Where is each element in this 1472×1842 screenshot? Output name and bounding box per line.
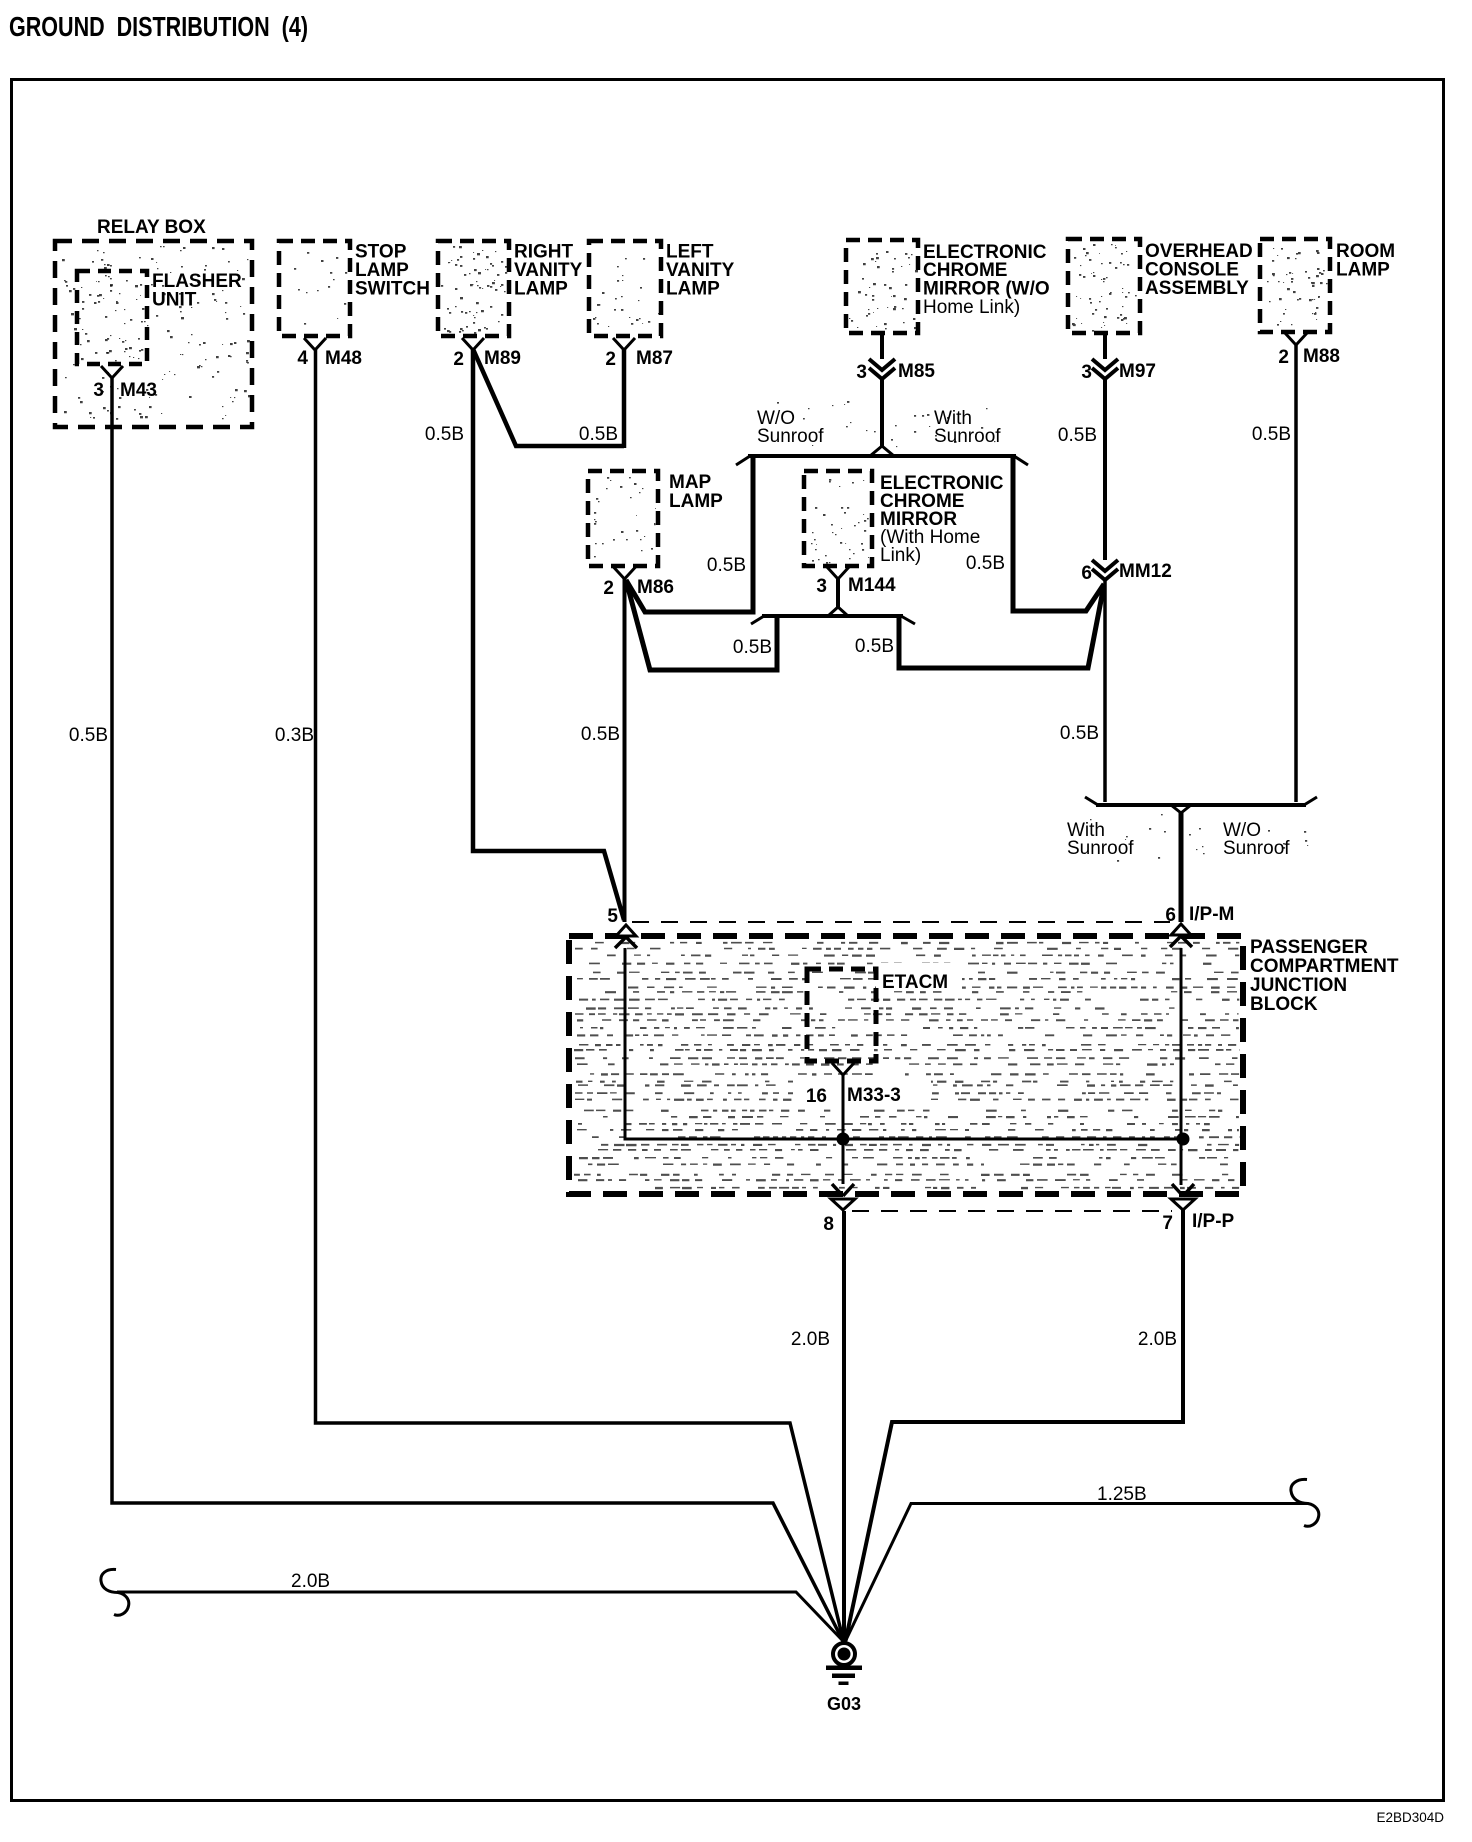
svg-text:M88: M88 [1303,346,1340,367]
svg-text:M43: M43 [120,380,157,401]
wire M43 to G03 (0.5B) [112,377,843,1641]
svg-text:0.3B: 0.3B [275,725,314,746]
map lamp [588,471,723,566]
svg-text:Sunroof: Sunroof [934,426,1001,447]
wire w/o-sunroof branch to M86 (0.5B) [626,456,753,612]
break symbol (2.0B wire) [101,1569,129,1615]
svg-text:0.5B: 0.5B [1060,723,1099,744]
svg-text:JUNCTION: JUNCTION [1250,975,1347,996]
label With Sunroof (merge left) [1067,820,1134,859]
svg-text:G03: G03 [827,1694,861,1714]
wire 2.0B with break to G03 [117,1592,843,1641]
break symbol (1.25B wire) [1291,1479,1319,1526]
passenger compartment junction block [569,936,1399,1194]
label W/O Sunroof (left branch) [757,408,824,447]
wire M144 right branch to MM12 (0.5B) [899,585,1104,668]
svg-text:ETACM: ETACM [882,972,948,993]
svg-text:ASSEMBLY: ASSEMBLY [1145,278,1249,299]
connector M97 pin 3 [1081,333,1156,383]
left vanity lamp [589,241,735,336]
svg-text:M85: M85 [898,361,935,382]
svg-text:0.5B: 0.5B [1058,425,1097,446]
connector M89 pin 2 [453,338,521,370]
svg-text:7: 7 [1162,1213,1173,1234]
internal wire bus to pin 8 [842,1139,845,1184]
internal wire M33-3 to bus [842,1075,845,1139]
wire pin 7 I/P-P to G03 (2.0B) [846,1210,1184,1641]
junction pin 5 [607,906,637,948]
svg-text:0.5B: 0.5B [581,724,620,745]
svg-text:3: 3 [816,576,827,597]
sunroof option split bracket [736,446,1028,465]
svg-text:M97: M97 [1119,361,1156,382]
svg-text:3: 3 [1081,362,1092,383]
connector M86 pin 2 [603,567,674,599]
svg-text:BLOCK: BLOCK [1250,994,1318,1015]
svg-text:COMPARTMENT: COMPARTMENT [1250,956,1399,977]
svg-text:Link): Link) [880,545,921,566]
label With Sunroof (right branch) [934,408,1001,447]
svg-text:Sunroof: Sunroof [1223,838,1290,859]
junction node (bus right) [1177,1133,1190,1146]
room lamp [1260,239,1395,332]
wire with-sunroof branch to MM12 (0.5B) [1013,456,1104,611]
svg-text:0.5B: 0.5B [425,424,464,445]
junction block connector strip (top) [632,921,1170,923]
svg-text:2: 2 [1278,347,1289,368]
wire M85 to sunroof split [880,379,884,447]
svg-text:2.0B: 2.0B [291,1571,330,1592]
svg-text:2: 2 [453,349,464,370]
wire M48 to G03 (0.3B) [316,349,844,1641]
svg-text:5: 5 [607,906,618,927]
junction block connector strip (bottom) [852,1210,1172,1212]
svg-text:LAMP: LAMP [666,279,720,300]
svg-text:E2BD304D: E2BD304D [1376,1810,1444,1825]
svg-text:M89: M89 [484,348,521,369]
ETACM [807,963,962,1061]
svg-text:M87: M87 [636,348,673,369]
svg-text:LAMP: LAMP [514,279,568,300]
connector M43 pin 3 [93,366,157,401]
svg-text:1.25B: 1.25B [1097,1484,1147,1505]
svg-text:MM12: MM12 [1119,561,1172,582]
svg-text:LAMP: LAMP [669,491,723,512]
overhead console assembly [1068,239,1253,333]
wire 1.25B with break to G03 [846,1504,1309,1642]
svg-text:0.5B: 0.5B [1252,424,1291,445]
svg-text:PASSENGER: PASSENGER [1250,937,1368,958]
connector M88 pin 2 [1278,333,1340,368]
svg-text:RELAY BOX: RELAY BOX [97,217,206,238]
M144 split bracket [751,607,915,624]
right vanity lamp [438,241,583,336]
relay box [55,217,252,427]
junction pin 8 [823,1184,855,1235]
electronic chrome mirror (w/o home link) [846,240,1050,333]
connector M85 pin 3 [856,333,935,383]
internal wire pin5 to bus [625,948,1183,1139]
connector M144 pin 3 [816,567,896,597]
wire pin 8 to G03 (2.0B) [842,1211,846,1642]
svg-text:2.0B: 2.0B [1138,1329,1177,1350]
ground G03 [826,1643,862,1714]
junction pin 6 I/P-M [1165,904,1234,947]
wire M88 down to sunroof merge (0.5B) [1294,344,1298,802]
connector MM12 pin 6 [1081,560,1171,584]
svg-text:UNIT: UNIT [152,290,197,311]
sunroof option merge bracket [1085,797,1317,813]
svg-text:M86: M86 [637,577,674,598]
svg-text:3: 3 [93,380,104,401]
wire M89 to M87 link [473,349,624,446]
svg-text:16: 16 [806,1086,827,1107]
wire M89 down to junction pin 5 (0.5B) [473,349,624,920]
svg-text:M33-3: M33-3 [847,1085,901,1106]
svg-text:M48: M48 [325,348,362,369]
flasher unit [77,271,242,364]
connector M87 pin 2 [605,338,673,370]
connector M48 pin 4 [297,338,362,369]
svg-text:4: 4 [297,348,308,369]
junction pin 7 I/P-P [1162,1184,1234,1234]
stop lamp switch [279,241,430,336]
wire merge to junction pin 6 I/P-M [1179,812,1184,922]
wire M87 down (0.5B) [622,349,627,448]
svg-text:M144: M144 [848,575,896,596]
svg-text:2: 2 [603,578,614,599]
svg-text:2.0B: 2.0B [791,1329,830,1350]
svg-text:0.5B: 0.5B [69,725,108,746]
svg-text:MAP: MAP [669,472,712,493]
svg-text:0.5B: 0.5B [733,637,772,658]
svg-text:I/P-P: I/P-P [1192,1211,1235,1232]
svg-text:3: 3 [856,362,867,383]
wire M144 to split [836,578,840,608]
svg-text:2: 2 [605,349,616,370]
svg-text:LAMP: LAMP [1336,260,1390,281]
connector M33-3 pin 16 [793,1063,931,1107]
svg-text:6: 6 [1081,563,1092,584]
label W/O Sunroof (merge right) [1223,820,1290,859]
svg-text:Sunroof: Sunroof [757,426,824,447]
svg-text:0.5B: 0.5B [707,555,746,576]
svg-text:8: 8 [823,1214,834,1235]
electronic chrome mirror (with home link) [804,471,1004,566]
wire MM12 down to sunroof merge (0.5B) [1103,580,1107,802]
svg-text:Home Link): Home Link) [923,297,1020,318]
svg-text:GROUND DISTRIBUTION (4): GROUND DISTRIBUTION (4) [9,11,308,42]
svg-text:0.5B: 0.5B [579,424,618,445]
junction node (bus left) [837,1133,850,1146]
svg-text:0.5B: 0.5B [966,553,1005,574]
svg-text:Sunroof: Sunroof [1067,838,1134,859]
svg-text:0.5B: 0.5B [855,636,894,657]
svg-text:SWITCH: SWITCH [355,279,430,300]
svg-text:I/P-M: I/P-M [1189,904,1234,925]
wire M86 down to junction pin 5 (0.5B) [623,578,627,922]
wire M97 to MM12 (0.5B) [1103,379,1107,560]
svg-text:6: 6 [1165,905,1176,926]
internal wire pin6 to pin7 [1180,948,1183,1185]
wire M144 left branch to M86 (0.5B) [627,584,777,670]
